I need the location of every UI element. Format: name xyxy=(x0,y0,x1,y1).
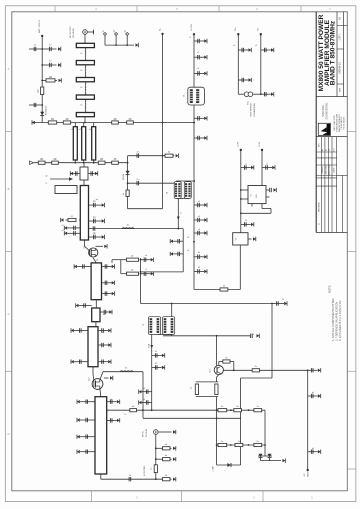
capacitor C44 xyxy=(85,450,87,454)
ground xyxy=(71,360,74,363)
capacitor C30 xyxy=(310,368,312,372)
wire stub for C42 xyxy=(80,419,95,421)
wire stub for C40 xyxy=(80,401,95,403)
resistor R11 xyxy=(98,161,105,164)
svg-text:2R: 2R xyxy=(53,158,56,161)
wire stub for C61 xyxy=(238,49,248,51)
wire stub for C32 xyxy=(308,451,318,453)
wire stub for C57 xyxy=(241,167,251,169)
node 9V terminal xyxy=(307,469,309,471)
wire stub for C51 xyxy=(194,137,204,139)
resistor R1 xyxy=(46,79,55,82)
resistor R29 xyxy=(154,465,157,473)
capacitor C21 xyxy=(143,272,145,276)
wire stub for C37 xyxy=(98,361,108,363)
capacitor C43 xyxy=(85,435,87,439)
svg-text:13.8V: 13.8V xyxy=(259,141,261,147)
svg-text:2R: 2R xyxy=(128,118,131,121)
diode D5 xyxy=(227,463,230,467)
inductor winding L8 xyxy=(188,183,190,197)
zone ticks left xyxy=(5,131,12,133)
ground xyxy=(151,258,154,261)
wire stub for C54 xyxy=(194,232,204,234)
svg-text:TS-: TS- xyxy=(258,27,260,31)
wire branch y155.7 to B+ and R8 xyxy=(128,155,165,157)
ground xyxy=(117,400,120,403)
wire y335.8 drop to Q3 xyxy=(216,336,218,366)
wire main rail y122.5 xyxy=(32,122,194,124)
wire stubs striplines to rails xyxy=(74,123,76,127)
ground xyxy=(74,265,77,268)
zone ticks top xyxy=(54,6,56,12)
ground xyxy=(318,450,321,453)
svg-text:DRN: DRN xyxy=(340,87,342,92)
wire T2 bottom bus xyxy=(158,333,172,335)
ground xyxy=(204,270,207,273)
capacitor C25 xyxy=(250,334,252,338)
wire x307.7 vertical xyxy=(307,370,309,470)
wire RF IN down xyxy=(155,434,157,465)
wire jog to bias column xyxy=(128,208,163,210)
inductor winding L16 xyxy=(196,89,199,103)
capacitor C8 xyxy=(93,203,95,207)
capacitor C42 xyxy=(85,418,87,422)
stripline W3 xyxy=(76,78,94,82)
ground xyxy=(95,172,98,175)
transformer T1 winding B outline xyxy=(184,182,191,199)
capacitor C11 xyxy=(73,226,75,230)
svg-text:1 OF 1: 1 OF 1 xyxy=(340,33,342,41)
capacitor C54 xyxy=(197,231,199,235)
capacitor C45 xyxy=(128,477,130,481)
wire stub for C53 xyxy=(194,219,204,221)
inductor winding L6 xyxy=(178,183,180,197)
resistor R14 xyxy=(127,258,139,261)
ground xyxy=(32,121,35,124)
wire VGA vertical xyxy=(151,348,153,410)
node BATT VOLTS terminal xyxy=(41,35,43,37)
resistor R28 xyxy=(163,458,171,461)
capacitor C41 xyxy=(109,400,111,404)
ground xyxy=(204,255,207,258)
wire emitter chain down xyxy=(216,397,218,446)
ground xyxy=(272,166,275,169)
resistor R23 xyxy=(254,409,262,412)
svg-text:REG: REG xyxy=(256,193,258,197)
revision table column lines xyxy=(320,137,322,233)
inductor L14 xyxy=(120,370,133,373)
wire x143 drop xyxy=(142,372,144,419)
capacitor C46 xyxy=(197,39,199,43)
ground xyxy=(108,329,111,332)
ground xyxy=(173,458,176,461)
svg-text:A1: A1 xyxy=(321,149,324,151)
wire stub for C38 xyxy=(79,305,92,307)
diode D1 xyxy=(40,112,44,116)
ground xyxy=(284,302,287,305)
wire stub for C7 xyxy=(88,173,95,175)
stripline W12 xyxy=(92,308,100,322)
connector J1 xyxy=(83,30,88,35)
ground xyxy=(162,354,165,357)
capacitor C2 xyxy=(49,47,51,51)
ground xyxy=(102,203,105,206)
title block bottom of revision table xyxy=(316,232,347,234)
component box K1 xyxy=(55,186,77,194)
svg-text:RF OUTPUT: RF OUTPUT xyxy=(70,25,72,38)
wire x265 vertical xyxy=(264,410,266,456)
wire stub for C8 xyxy=(89,204,102,206)
stripline W10 xyxy=(91,263,101,300)
feedback resistor loop xyxy=(218,362,220,366)
capacitor C36 xyxy=(79,360,81,364)
svg-text:13.8V: 13.8V xyxy=(238,141,240,147)
wire stub for C9 xyxy=(89,220,102,222)
wire RF IN right stub xyxy=(158,431,171,433)
wire stub for C27 xyxy=(152,367,162,369)
stripline W8 xyxy=(92,127,96,160)
svg-text:SEND: SEND xyxy=(307,471,309,477)
capacitor C22 xyxy=(177,239,179,243)
transformer T1 top rail xyxy=(176,180,194,182)
svg-text:+13.8V: +13.8V xyxy=(191,23,193,31)
capacitor C16 xyxy=(104,264,106,268)
wire stub for C62 xyxy=(261,49,271,51)
wire stub for C41b xyxy=(107,419,117,421)
ground xyxy=(204,231,207,234)
ground xyxy=(170,240,173,243)
transformer T2 winding B outline xyxy=(163,317,175,335)
ground xyxy=(251,166,254,169)
wire IC feed verticals xyxy=(240,150,242,233)
ground xyxy=(162,366,165,369)
capacitor C34 xyxy=(101,328,103,332)
wire Q2 stub ground xyxy=(104,377,109,379)
capacitor C38 xyxy=(83,303,85,307)
wire stub for C48 xyxy=(194,72,204,74)
wire stub for C30 xyxy=(308,369,318,371)
svg-text:(ON HEATSINK): (ON HEATSINK) xyxy=(253,103,256,117)
resistor R31 xyxy=(220,288,228,291)
resistor R19 xyxy=(215,384,218,395)
wire stub for C56 xyxy=(194,270,204,272)
zone ticks bottom xyxy=(91,491,93,502)
wire stub for C50 xyxy=(194,117,204,119)
svg-text:1. NOT ALL COMPONENTS FITTED: 1. NOT ALL COMPONENTS FITTED xyxy=(331,298,335,341)
svg-text:2R: 2R xyxy=(40,158,43,161)
inductor winding L13 xyxy=(171,318,174,333)
capacitor C50 xyxy=(197,116,199,120)
title block inner column line B xyxy=(343,12,345,97)
ground xyxy=(77,435,80,438)
diode D2 xyxy=(126,171,130,175)
capacitor C4 xyxy=(33,103,35,107)
capacitor C33 xyxy=(79,328,81,332)
ground xyxy=(204,39,207,42)
inductor winding L7 xyxy=(185,183,187,197)
wire rail B y418.3 xyxy=(143,417,241,419)
capacitor C58 xyxy=(265,165,267,169)
svg-text:2R: 2R xyxy=(100,158,103,161)
wire B+ vertical xyxy=(162,34,164,209)
wire x194 vertical xyxy=(193,34,195,289)
wire stub for C11 xyxy=(67,227,80,229)
svg-text:C1: C1 xyxy=(329,149,331,151)
ground xyxy=(61,218,64,221)
wire bias column x127.6 xyxy=(127,156,129,209)
resistor R4 xyxy=(63,121,70,124)
ground xyxy=(257,334,260,337)
capacitor C28 xyxy=(145,390,147,394)
wire stub for C39 xyxy=(100,311,109,313)
ground xyxy=(204,72,207,75)
svg-text:A: A xyxy=(8,67,10,71)
wire stub for C43 xyxy=(80,436,95,438)
wire branch y183.2 to T1 xyxy=(128,182,175,184)
resistor R7 xyxy=(126,190,129,197)
svg-text:2R: 2R xyxy=(49,76,52,79)
inductor L9 xyxy=(122,227,134,230)
wire stub for C44 xyxy=(80,451,95,453)
IC U1 box xyxy=(248,186,266,204)
wire T1 bottom rail xyxy=(176,197,189,199)
stripline W9 xyxy=(80,186,88,241)
wire row2 y445 xyxy=(217,444,265,446)
stripline W5 xyxy=(76,113,94,117)
wire stub for C19 xyxy=(102,293,112,295)
svg-text:C: C xyxy=(8,312,10,316)
wire y378 jog left xyxy=(241,377,272,379)
capacitor C55 xyxy=(197,255,199,259)
wire branch y105 left stub xyxy=(29,104,42,106)
wire Q2 drain line right with coil xyxy=(100,372,103,380)
ground xyxy=(77,400,80,403)
wire rail y335.8 xyxy=(163,335,250,337)
wire Q1 top stub ground xyxy=(96,245,104,247)
wire rail2 to coupler xyxy=(83,163,85,167)
wire stub for C12 xyxy=(67,232,80,234)
node SENSE A terminal xyxy=(237,33,239,35)
resistor R26 xyxy=(254,443,262,446)
ground xyxy=(170,252,173,255)
resistor R22 xyxy=(234,409,242,412)
wire stripline6 to Q2 xyxy=(92,367,94,374)
ground xyxy=(318,369,321,372)
wire x216.6 down to diode row xyxy=(216,445,218,465)
svg-text:ENGINEERING: ENGINEERING xyxy=(326,102,329,119)
svg-text:SPECTRA: SPECTRA xyxy=(322,105,325,117)
wire branch y49 right xyxy=(42,48,56,50)
ground xyxy=(283,459,286,462)
ground xyxy=(108,343,111,346)
stripline W1 xyxy=(76,43,94,47)
wire branch y80.4 with resistor xyxy=(42,79,46,81)
wire y271.9 join xyxy=(141,271,184,273)
svg-text:4/97: 4/97 xyxy=(334,148,336,152)
ground xyxy=(59,79,62,82)
coupler resistors to x140.5 xyxy=(121,259,126,261)
resistor R27 xyxy=(163,447,171,450)
wire bus y303.5 xyxy=(141,303,273,305)
ground xyxy=(71,329,74,332)
capacitor C24 xyxy=(276,301,278,305)
svg-text:NOTE:: NOTE: xyxy=(328,285,332,293)
resistor R20 xyxy=(130,409,137,412)
svg-text:DATE: DATE xyxy=(333,167,336,173)
capacitor C64 xyxy=(264,92,266,96)
capacitor C27 xyxy=(154,365,156,369)
resistor R8 xyxy=(165,154,173,157)
wire left branch y220 resistor xyxy=(79,219,80,221)
wire T2 left winding down arrow xyxy=(151,334,153,348)
ground xyxy=(102,235,105,238)
capacitor C32 xyxy=(310,450,312,454)
stripline W7 xyxy=(82,127,86,160)
wire stub for C36 xyxy=(74,361,88,363)
resistor R10 xyxy=(52,161,59,164)
capacitor C53 xyxy=(197,218,199,222)
capacitor C51 xyxy=(197,136,199,140)
ground xyxy=(173,447,176,450)
logo box xyxy=(318,123,330,135)
ground xyxy=(58,47,61,50)
wire x240.3 up to box xyxy=(239,245,241,290)
capacitor C47 xyxy=(197,55,199,59)
wire rail2 y162.7 xyxy=(34,162,128,164)
svg-text:CHECKED: CHECKED xyxy=(326,165,328,175)
title block divider under title xyxy=(316,96,347,98)
inductor winding L10 xyxy=(150,318,153,333)
ground xyxy=(112,265,115,268)
RF flow arrow xyxy=(50,178,69,180)
svg-text:(LOW PWR): (LOW PWR) xyxy=(144,465,146,476)
svg-text:(50 OHM): (50 OHM) xyxy=(73,28,75,38)
wire bus drop to T2 xyxy=(171,304,173,317)
capacitor C19 xyxy=(104,291,106,295)
wire stub for C63 xyxy=(238,79,248,81)
capacitor C59 xyxy=(269,188,271,192)
title block left edge xyxy=(315,12,317,233)
resistor R16 xyxy=(223,360,230,363)
resistor R9 xyxy=(38,161,45,164)
node SENSE B terminal xyxy=(260,33,262,35)
capacitor C41b xyxy=(109,418,111,422)
wire pin bus xyxy=(105,44,134,46)
wire stub for C26 xyxy=(152,354,162,356)
capacitor C40 xyxy=(85,400,87,404)
svg-text:RF IN: RF IN xyxy=(143,431,145,437)
capacitor C3 xyxy=(49,63,51,67)
capacitor C26 xyxy=(154,353,156,357)
node 13.8V B terminal xyxy=(261,149,263,151)
ground xyxy=(139,401,142,404)
title block small dividers right column xyxy=(337,25,347,27)
capacitor C35 xyxy=(101,343,103,347)
diode D4 xyxy=(268,454,272,458)
svg-text:VGA: VGA xyxy=(148,343,151,348)
wire stub for C31 xyxy=(308,395,318,397)
ground xyxy=(136,43,139,46)
diodes D3 D4 xyxy=(258,455,272,457)
wire stub for C33 xyxy=(74,330,88,332)
wire stripline4 into Q1 xyxy=(83,240,85,246)
capacitor C61 xyxy=(241,48,243,52)
wire filter to rail xyxy=(84,117,86,123)
ground xyxy=(249,48,252,51)
capacitor C29 xyxy=(145,400,147,404)
wire coupler down xyxy=(83,180,85,186)
inductor winding L11 xyxy=(157,318,160,333)
capacitor C62 xyxy=(264,48,266,52)
svg-text:RELEASED: RELEASED xyxy=(318,201,321,212)
wire U2 ground stub xyxy=(248,238,252,240)
ground xyxy=(112,292,115,295)
capacitor C5b xyxy=(136,181,138,185)
capacitor C6 xyxy=(74,171,76,175)
title block inner column line A xyxy=(336,12,338,97)
wire Q2 down to stripline7 xyxy=(100,388,101,397)
inductor winding L5 xyxy=(175,183,177,197)
capacitor C31 xyxy=(310,394,312,398)
capacitor C63 xyxy=(241,78,243,82)
ground xyxy=(251,223,254,226)
ground xyxy=(77,418,80,421)
choke assembly xyxy=(188,87,205,105)
capacitor C7 xyxy=(90,171,92,175)
wire Q1 down xyxy=(93,258,96,263)
wire 5b to 6 xyxy=(95,322,97,327)
capacitor C48 xyxy=(197,71,199,75)
ground xyxy=(112,281,115,284)
resistor R25 xyxy=(235,443,243,446)
ground xyxy=(117,419,120,422)
wire coupler junction x120.8 xyxy=(112,259,121,261)
ground xyxy=(249,78,252,81)
inductor L4 xyxy=(84,100,87,113)
wire stub for C34 xyxy=(98,330,108,332)
wire stub for C64 xyxy=(261,93,271,95)
wire connector to filter xyxy=(84,34,86,43)
title block divider under logo xyxy=(316,136,347,138)
svg-text:1k: 1k xyxy=(151,468,153,470)
pin stub 3 xyxy=(126,32,129,35)
ground xyxy=(102,219,105,222)
capacitor C23 xyxy=(177,252,179,256)
wire stub for C20 xyxy=(141,259,151,261)
IC pin stubs xyxy=(241,189,248,191)
wire line A resistor row right xyxy=(217,409,265,411)
svg-text:+ CAP: + CAP xyxy=(212,465,215,472)
stripline W13 xyxy=(95,397,107,474)
svg-text:R: R xyxy=(46,175,49,177)
ground xyxy=(204,218,207,221)
wire stub for C52 xyxy=(194,204,204,206)
zone ticks right xyxy=(347,131,356,133)
ground xyxy=(76,304,79,307)
ground xyxy=(173,430,176,433)
svg-text:BATT VOLTS: BATT VOLTS xyxy=(38,19,41,33)
svg-text:3. LOT LINES: B,C,L,J,N,P,R,S: 3. LOT LINES: B,C,L,J,N,P,R,S,T,U xyxy=(338,300,342,341)
wire stub for C6 xyxy=(73,173,80,175)
resistor R12 xyxy=(112,161,119,164)
wire stub for C21 xyxy=(141,273,151,275)
wire diode D5 row xyxy=(217,464,241,466)
wire stub for C15 xyxy=(77,266,91,268)
svg-text:FX 09 344 366: FX 09 344 366 xyxy=(344,117,346,129)
resistor R6 xyxy=(127,121,134,124)
wire stub for C55 xyxy=(194,256,204,258)
ground xyxy=(274,188,277,191)
